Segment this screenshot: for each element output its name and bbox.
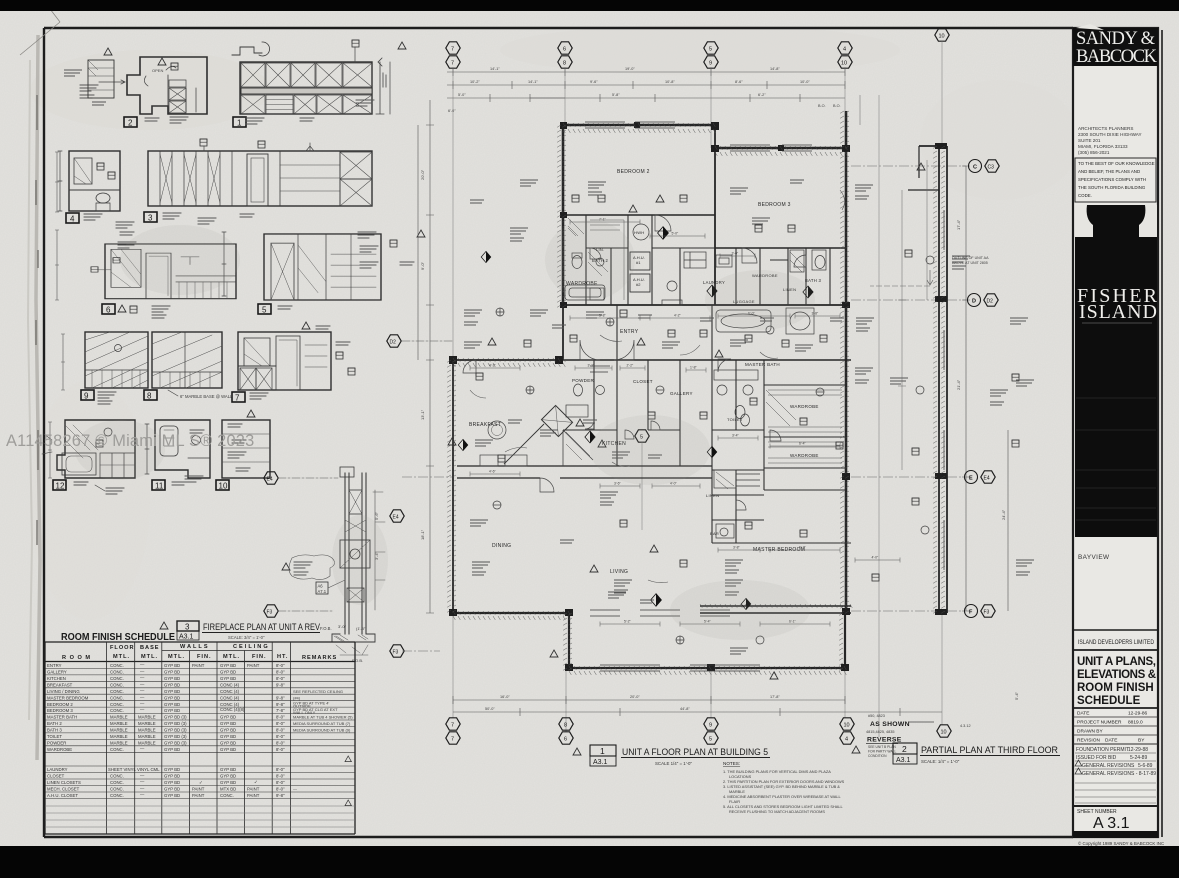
svg-text:—: — bbox=[140, 707, 145, 712]
top dimension chains bbox=[447, 68, 845, 102]
svg-text:20'-0": 20'-0" bbox=[630, 695, 640, 699]
east facade adjacent building bbox=[919, 146, 947, 613]
svg-text:5'-0": 5'-0" bbox=[458, 93, 466, 97]
bedroom2 north wall bbox=[563, 124, 715, 127]
svg-text:3: 3 bbox=[148, 214, 153, 223]
left vertical dimension chain bbox=[418, 100, 434, 613]
detail 11 bath plan bbox=[145, 420, 210, 491]
svg-text:4: 4 bbox=[70, 215, 75, 224]
svg-text:KITCHEN: KITCHEN bbox=[47, 676, 66, 681]
svg-text:A11458267 © Miami ML S® 2023: A11458267 © Miami ML S® 2023 bbox=[6, 432, 254, 450]
svg-text:PAINT: PAINT bbox=[247, 793, 260, 798]
svg-text:CLOSET: CLOSET bbox=[633, 379, 653, 384]
svg-text:16'-0": 16'-0" bbox=[500, 695, 510, 699]
svg-text:CONC (4): CONC (4) bbox=[220, 695, 240, 700]
svg-text:GALLERY: GALLERY bbox=[47, 670, 67, 675]
svg-text:D2: D2 bbox=[987, 299, 994, 305]
fireplace note cloud bbox=[282, 563, 290, 570]
detail 6 master bath elevation bbox=[91, 244, 236, 318]
svg-text:—: — bbox=[293, 787, 297, 792]
svg-text:BEDROOM 3: BEDROOM 3 bbox=[758, 202, 791, 208]
ceiling fin column bbox=[247, 663, 260, 798]
svg-text:WALLS: WALLS bbox=[180, 644, 210, 650]
A.H.U. boxes bbox=[630, 252, 650, 270]
svg-text:—: — bbox=[140, 779, 145, 784]
svg-text:10: 10 bbox=[844, 723, 850, 729]
right margin hexagon markers bbox=[635, 160, 999, 618]
svg-text:GYP BD (3): GYP BD (3) bbox=[164, 715, 187, 720]
wardrobe shelf lines bbox=[590, 220, 842, 463]
svg-text:BASE: BASE bbox=[140, 645, 160, 651]
svg-text:CONC.: CONC. bbox=[110, 689, 124, 694]
svg-text:GYP BD: GYP BD bbox=[164, 774, 180, 779]
svg-text:SCALE: 3/4" = 1'-0": SCALE: 3/4" = 1'-0" bbox=[228, 635, 265, 640]
svg-text:GYP BD (3): GYP BD (3) bbox=[164, 728, 187, 733]
svg-text:4: 4 bbox=[845, 737, 848, 743]
svg-text:DATE: DATE bbox=[1077, 711, 1089, 717]
svg-text:BEDROOM 3: BEDROOM 3 bbox=[47, 708, 73, 713]
svg-text:3: 3 bbox=[185, 623, 190, 632]
title block outer border bbox=[1073, 28, 1158, 837]
svg-text:8'-0": 8'-0" bbox=[276, 721, 285, 726]
svg-text:3'-4": 3'-4" bbox=[732, 434, 740, 438]
svg-text:LAUNDRY: LAUNDRY bbox=[47, 767, 68, 772]
urn shoulders bbox=[1075, 205, 1093, 237]
svg-text:GENERAL REVISIONS - 8-17-89: GENERAL REVISIONS - 8-17-89 bbox=[1082, 771, 1156, 777]
svg-text:CONDITION: CONDITION bbox=[868, 754, 887, 758]
chimney wall strip bbox=[345, 473, 366, 634]
svg-text:5-24-89: 5-24-89 bbox=[1130, 755, 1147, 761]
svg-text:14'-1": 14'-1" bbox=[490, 67, 500, 71]
svg-text:5: 5 bbox=[709, 47, 712, 53]
svg-text:GYP BD (3): GYP BD (3) bbox=[164, 721, 187, 726]
D2 hexagon margin marker bbox=[387, 335, 452, 347]
table grid bbox=[45, 642, 355, 834]
fireplace plan detail bbox=[264, 467, 404, 663]
west wall bedroom2 bbox=[562, 125, 565, 305]
marker F3 mid bbox=[390, 645, 404, 657]
sheet number box bbox=[1073, 805, 1158, 807]
svg-text:8'-0": 8'-0" bbox=[276, 676, 285, 681]
title block bottom black bar bbox=[1073, 831, 1158, 838]
svg-text:A6: A6 bbox=[318, 584, 324, 589]
svg-text:MARBLE: MARBLE bbox=[138, 721, 156, 726]
svg-text:10'-0": 10'-0" bbox=[800, 80, 810, 84]
svg-text:THE SOUTH FLORIDA BUILDING: THE SOUTH FLORIDA BUILDING bbox=[1078, 185, 1146, 190]
svg-text:GYP BD: GYP BD bbox=[164, 682, 180, 687]
marker E4 left bbox=[264, 472, 278, 484]
svg-text:FLOOR: FLOOR bbox=[110, 645, 135, 651]
bath3 tub/lav bbox=[790, 250, 804, 272]
detail 8 shower elevation bbox=[144, 332, 233, 401]
detail 1 kitchen elevation bbox=[232, 40, 406, 128]
svg-text:18'-1": 18'-1" bbox=[420, 529, 425, 540]
walls fin column bbox=[192, 663, 205, 798]
window sills on exterior walls bbox=[585, 122, 944, 671]
svg-text:5'-6": 5'-6" bbox=[374, 511, 379, 520]
reference dash-dot lines to right margin bbox=[402, 166, 966, 651]
svg-text:5'-0": 5'-0" bbox=[672, 232, 680, 236]
svg-text:GENERAL REVISIONS: GENERAL REVISIONS bbox=[1082, 763, 1135, 769]
svg-text:BATH 2: BATH 2 bbox=[47, 721, 62, 726]
svg-text:✓: ✓ bbox=[254, 780, 258, 785]
svg-text:5-6-89: 5-6-89 bbox=[1138, 763, 1153, 769]
bottom dimension chains of plan bbox=[453, 696, 942, 716]
svg-text:8: 8 bbox=[563, 61, 566, 67]
svg-text:F.O.B.: F.O.B. bbox=[352, 658, 363, 663]
svg-text:3'-8": 3'-8" bbox=[733, 546, 741, 550]
svg-text:5'-4": 5'-4" bbox=[1014, 691, 1019, 700]
svg-text:11: 11 bbox=[155, 482, 164, 491]
svg-text:12: 12 bbox=[56, 482, 65, 491]
powder fixtures bbox=[574, 384, 583, 396]
top grid bubbles bbox=[446, 29, 949, 68]
svg-text:MASTER BATH: MASTER BATH bbox=[745, 362, 780, 367]
svg-text:BATH 3: BATH 3 bbox=[805, 278, 822, 283]
detail 7 vanity elevation bbox=[232, 322, 355, 403]
svg-text:CEILING: CEILING bbox=[233, 644, 270, 650]
svg-text:REMARKS: REMARKS bbox=[302, 655, 337, 661]
svg-text:POWDER: POWDER bbox=[47, 741, 66, 746]
svg-text:20'-0": 20'-0" bbox=[420, 169, 425, 180]
svg-text:44'-8": 44'-8" bbox=[680, 707, 690, 711]
svg-text:D: D bbox=[972, 299, 976, 305]
svg-text:ENTRY: ENTRY bbox=[620, 329, 639, 335]
svg-text:—: — bbox=[140, 694, 145, 699]
linen/bar little walls bbox=[735, 470, 737, 543]
svg-text:CONC.: CONC. bbox=[110, 676, 124, 681]
svg-text:GYP BD: GYP BD bbox=[164, 780, 180, 785]
svg-text:B.O.: B.O. bbox=[833, 104, 841, 108]
svg-text:9'-8": 9'-8" bbox=[276, 702, 285, 707]
svg-text:SUITE 201: SUITE 201 bbox=[1078, 138, 1101, 143]
svg-text:HWH: HWH bbox=[634, 230, 644, 235]
svg-text:3'-0": 3'-0" bbox=[732, 252, 740, 256]
svg-text:6'-2": 6'-2" bbox=[758, 93, 766, 97]
faint lines inside black box bbox=[1076, 398, 1156, 520]
svg-text:REVISION: REVISION bbox=[1077, 738, 1100, 744]
bottom black band bbox=[0, 846, 1179, 878]
svg-text:C3: C3 bbox=[988, 165, 995, 171]
svg-text:CONC (4): CONC (4) bbox=[220, 682, 240, 687]
svg-text:GYP BD: GYP BD bbox=[164, 767, 180, 772]
svg-text:6: 6 bbox=[563, 47, 566, 53]
svg-text:GYP BD: GYP BD bbox=[220, 676, 236, 681]
svg-text:E4: E4 bbox=[984, 476, 990, 482]
svg-text:CONC.: CONC. bbox=[110, 702, 124, 707]
svg-text:5'-8": 5'-8" bbox=[612, 93, 620, 97]
spine bedroom2/3 bbox=[714, 125, 716, 305]
svg-text:© Copyright 1989 SANDY & BABC: © Copyright 1989 SANDY & BABCOCK INC bbox=[1078, 841, 1164, 846]
svg-text:5'-2": 5'-2" bbox=[624, 620, 632, 624]
svg-text:8'-0": 8'-0" bbox=[276, 734, 285, 739]
svg-text:7'-1": 7'-1" bbox=[599, 218, 607, 222]
svg-text:FOR PARTY WALL: FOR PARTY WALL bbox=[868, 750, 896, 754]
svg-text:UNIT A FLOOR PLAN AT BUILDING: UNIT A FLOOR PLAN AT BUILDING 5 bbox=[622, 747, 768, 757]
svg-text:SANDY &: SANDY & bbox=[1076, 29, 1156, 49]
svg-text:17'-8": 17'-8" bbox=[770, 695, 780, 699]
svg-text:10'-8": 10'-8" bbox=[665, 80, 675, 84]
marker F3 left bbox=[264, 605, 278, 617]
svg-text:C: C bbox=[973, 165, 977, 171]
detail 12 master bath plan bbox=[42, 420, 135, 494]
svg-text:MARBLE: MARBLE bbox=[138, 741, 156, 746]
svg-text:50'-0": 50'-0" bbox=[485, 707, 495, 711]
svg-text:MASTER BEDROOM: MASTER BEDROOM bbox=[47, 695, 89, 700]
svg-text:—: — bbox=[140, 746, 145, 751]
svg-text:4'-2": 4'-2" bbox=[489, 364, 497, 368]
hwh bbox=[633, 224, 649, 240]
detail 3 long cabinet elevation bbox=[144, 139, 372, 224]
left crease bbox=[36, 35, 40, 760]
svg-text:BAYVIEW: BAYVIEW bbox=[1078, 554, 1110, 561]
sandy & babcock black box bbox=[1073, 28, 1158, 66]
svg-text:ELEVATIONS &: ELEVATIONS & bbox=[1077, 669, 1156, 681]
svg-text:8'-0": 8'-0" bbox=[276, 774, 285, 779]
svg-text:4'-0": 4'-0" bbox=[872, 556, 880, 560]
svg-text:3'-1": 3'-1" bbox=[588, 364, 596, 368]
svg-text:GYP BD: GYP BD bbox=[220, 715, 236, 720]
svg-text:1'-8": 1'-8" bbox=[690, 366, 698, 370]
svg-text:GYP BD: GYP BD bbox=[164, 787, 180, 792]
svg-text:GALLERY: GALLERY bbox=[670, 391, 693, 396]
svg-text:4.3.12: 4.3.12 bbox=[960, 724, 971, 728]
svg-text:GYP BD: GYP BD bbox=[164, 670, 180, 675]
svg-text:10: 10 bbox=[941, 730, 947, 736]
svg-text:CODE.: CODE. bbox=[1078, 193, 1092, 198]
svg-text:8'-0": 8'-0" bbox=[276, 780, 285, 785]
leader curves details bbox=[470, 190, 845, 583]
svg-text:10: 10 bbox=[219, 482, 228, 491]
svg-text:GYP BD: GYP BD bbox=[220, 663, 236, 668]
svg-text:9'-8": 9'-8" bbox=[276, 695, 285, 700]
svg-text:E4: E4 bbox=[267, 477, 273, 483]
svg-text:TOILET: TOILET bbox=[47, 734, 62, 739]
svg-text:MARBLE: MARBLE bbox=[138, 728, 156, 733]
svg-text:CONC.: CONC. bbox=[110, 793, 124, 798]
svg-text:FOUNDATION PERMIT: FOUNDATION PERMIT bbox=[1076, 747, 1129, 753]
svg-text:7'-8": 7'-8" bbox=[276, 708, 285, 713]
svg-text:8'-0": 8'-0" bbox=[276, 715, 285, 720]
bottom grid bubbles bbox=[446, 718, 951, 744]
svg-text:7: 7 bbox=[451, 61, 454, 67]
svg-text:14'-8": 14'-8" bbox=[770, 67, 780, 71]
outline of unit above note bbox=[870, 256, 989, 286]
vents and misc circles bbox=[493, 256, 934, 644]
scan smudges bbox=[75, 220, 815, 640]
svg-text:—: — bbox=[140, 773, 145, 778]
svg-text:—: — bbox=[140, 688, 145, 693]
table headers bbox=[62, 644, 337, 661]
svg-text:9'-8": 9'-8" bbox=[276, 793, 285, 798]
svg-text:10: 10 bbox=[841, 61, 847, 67]
svg-text:AS SHOWN: AS SHOWN bbox=[870, 721, 910, 728]
svg-text:MARBLE: MARBLE bbox=[138, 734, 156, 739]
svg-text:8'-6": 8'-6" bbox=[735, 80, 743, 84]
tiny annotation scribbles bbox=[464, 310, 482, 316]
svg-text:6: 6 bbox=[106, 306, 111, 315]
top black band bbox=[0, 0, 1179, 11]
bedroom2 south wall bbox=[563, 214, 715, 216]
svg-text:2: 2 bbox=[902, 744, 907, 754]
svg-text:GYP BD: GYP BD bbox=[220, 780, 236, 785]
svg-text:9: 9 bbox=[709, 723, 712, 729]
svg-text:E: E bbox=[969, 476, 973, 482]
svg-text:GYP BD: GYP BD bbox=[220, 774, 236, 779]
svg-text:8'-0": 8'-0" bbox=[276, 767, 285, 772]
svg-text:MARBLE: MARBLE bbox=[110, 721, 128, 726]
svg-text:A7.1: A7.1 bbox=[318, 589, 327, 594]
svg-text:GYP BD: GYP BD bbox=[220, 728, 236, 733]
svg-text:GYP BD: GYP BD bbox=[164, 793, 180, 798]
svg-text:24'-4": 24'-4" bbox=[1001, 509, 1006, 520]
svg-text:UNIT A PLANS,: UNIT A PLANS, bbox=[1077, 656, 1156, 668]
svg-text:8'-0": 8'-0" bbox=[276, 787, 285, 792]
svg-text:SHEET VINYL: SHEET VINYL bbox=[108, 767, 136, 772]
detail 5 bath elevation bbox=[222, 230, 425, 315]
svg-text:7: 7 bbox=[451, 723, 454, 729]
svg-text:GYP BD: GYP BD bbox=[220, 747, 236, 752]
svg-text:GYP BD: GYP BD bbox=[164, 702, 180, 707]
svg-text:BEDROOM 2: BEDROOM 2 bbox=[617, 169, 650, 175]
svg-text:WARDROBE: WARDROBE bbox=[790, 404, 819, 409]
row lines bbox=[45, 668, 355, 798]
svg-text:PROJECT NUMBER: PROJECT NUMBER bbox=[1077, 720, 1122, 726]
svg-text:9: 9 bbox=[709, 61, 712, 67]
svg-text:CONC.: CONC. bbox=[220, 793, 234, 798]
svg-text:BATH 3: BATH 3 bbox=[47, 728, 62, 733]
master bedroom south wall bbox=[700, 606, 851, 613]
walls mtl column bbox=[164, 663, 187, 798]
party wall east bbox=[845, 111, 848, 613]
svg-text:BAR: BAR bbox=[710, 531, 719, 536]
svg-text:—: — bbox=[140, 701, 145, 706]
paper stains bbox=[30, 50, 270, 130]
svg-text:GYP BD: GYP BD bbox=[164, 689, 180, 694]
svg-text:MARBLE: MARBLE bbox=[138, 715, 156, 720]
svg-text:OUTLINE OF UNIT AA: OUTLINE OF UNIT AA bbox=[952, 256, 989, 260]
bath strip south wall bbox=[563, 304, 846, 306]
laundry tubs bbox=[716, 255, 732, 267]
svg-text:5'-8": 5'-8" bbox=[599, 314, 607, 318]
svg-text:CONC.: CONC. bbox=[110, 787, 124, 792]
master bath fixtures bbox=[717, 385, 727, 395]
svg-text:A3.1: A3.1 bbox=[593, 759, 608, 766]
toilet/wardrobe block right bbox=[735, 360, 737, 430]
svg-text:CONC.: CONC. bbox=[110, 670, 124, 675]
wall hatching ticks bbox=[447, 111, 945, 675]
svg-text:WARDROBE: WARDROBE bbox=[790, 453, 819, 458]
svg-text:AND BELIEF, THE PLANS AND: AND BELIEF, THE PLANS AND bbox=[1078, 169, 1140, 174]
svg-text:—: — bbox=[140, 675, 145, 680]
svg-text:ISLAND: ISLAND bbox=[1079, 301, 1157, 323]
svg-text:2'-2": 2'-2" bbox=[627, 364, 635, 368]
detail 4 bath elevation bbox=[58, 151, 136, 248]
svg-text:17'-4": 17'-4" bbox=[956, 219, 961, 230]
detail 2 kitchen plan bbox=[80, 57, 207, 128]
svg-text:MEDIA SURROUND AT TUB (9): MEDIA SURROUND AT TUB (9) bbox=[293, 728, 351, 733]
svg-text:BREAKFAST: BREAKFAST bbox=[47, 682, 73, 687]
svg-text:5: 5 bbox=[262, 306, 267, 315]
svg-text:PAINT: PAINT bbox=[192, 663, 205, 668]
svg-text:ABOVE AT UNIT 2805: ABOVE AT UNIT 2805 bbox=[952, 261, 988, 265]
svg-text:SCALE: 1/4" = 1'-0": SCALE: 1/4" = 1'-0" bbox=[921, 759, 960, 764]
black door diamonds bbox=[481, 251, 491, 262]
svg-text:A.H.U. CLOSET: A.H.U. CLOSET bbox=[47, 793, 78, 798]
svg-text:8'-0": 8'-0" bbox=[276, 663, 285, 668]
svg-text:CONC.: CONC. bbox=[110, 695, 124, 700]
svg-text:5: 5 bbox=[709, 737, 712, 743]
svg-text:A 3.1: A 3.1 bbox=[1093, 815, 1130, 832]
svg-text:HT.: HT. bbox=[277, 654, 288, 660]
svg-text:MASTER BATH: MASTER BATH bbox=[47, 715, 77, 720]
svg-text:CONC.: CONC. bbox=[110, 663, 124, 668]
svg-text:GYP BD: GYP BD bbox=[164, 747, 180, 752]
svg-text:GYP BD: GYP BD bbox=[220, 734, 236, 739]
svg-text:7: 7 bbox=[235, 394, 240, 403]
marker E4 mid bbox=[390, 510, 404, 522]
svg-text:MTL.: MTL. bbox=[223, 654, 240, 660]
svg-text:RECEIVE FLUSHING TO MATCH ADJA: RECEIVE FLUSHING TO MATCH ADJACENT ROOMS bbox=[729, 809, 825, 814]
svg-text:21'-4": 21'-4" bbox=[956, 379, 961, 390]
top-left wall section fragment bbox=[64, 48, 114, 105]
breakfast table bbox=[488, 421, 506, 439]
notes list bbox=[723, 761, 845, 814]
svg-text:GYP BD: GYP BD bbox=[220, 721, 236, 726]
bath fixtures bbox=[565, 224, 825, 536]
room rows column: names bbox=[47, 663, 89, 798]
svg-text:#2: #2 bbox=[636, 282, 641, 287]
svg-text:F.O.B.: F.O.B. bbox=[320, 626, 332, 631]
svg-text:GYP BD: GYP BD bbox=[164, 708, 180, 713]
svg-text:6'-4": 6'-4" bbox=[799, 442, 807, 446]
svg-text:4. MEDICINE ABSORBENT PLASTER: 4. MEDICINE ABSORBENT PLASTER OVER WIREB… bbox=[723, 794, 842, 799]
kitchen island diagonal bbox=[541, 405, 572, 436]
ceiling mtl column bbox=[220, 663, 245, 798]
svg-text:F3: F3 bbox=[984, 610, 990, 616]
svg-text:(1'-8"): (1'-8") bbox=[356, 626, 367, 631]
svg-text:DINING: DINING bbox=[492, 543, 511, 549]
svg-text:#1: #1 bbox=[636, 260, 641, 265]
svg-text:MARBLE: MARBLE bbox=[110, 715, 128, 720]
svg-text:ARCHITECTS PLANNERS: ARCHITECTS PLANNERS bbox=[1078, 126, 1133, 131]
bar sink bbox=[720, 528, 728, 536]
kitchen counter wall bbox=[457, 466, 712, 478]
svg-text:MTL.: MTL. bbox=[113, 654, 130, 660]
svg-text:3'-8": 3'-8" bbox=[812, 312, 820, 316]
svg-text:8'-0": 8'-0" bbox=[276, 670, 285, 675]
entry door arcs bbox=[463, 215, 806, 510]
svg-text:8'-0": 8'-0" bbox=[276, 741, 285, 746]
detail 10 closet plan bbox=[216, 410, 270, 491]
terrace west wall bbox=[452, 360, 454, 613]
svg-text:BY: BY bbox=[1138, 738, 1145, 744]
svg-text:7: 7 bbox=[451, 737, 454, 743]
svg-text:4'-2": 4'-2" bbox=[674, 314, 682, 318]
svg-text:LIVING: LIVING bbox=[610, 569, 628, 575]
floor mtl column bbox=[108, 663, 136, 798]
svg-text:CONC.: CONC. bbox=[110, 708, 124, 713]
svg-text:8: 8 bbox=[147, 392, 152, 401]
wall column blocks bbox=[449, 122, 947, 671]
svg-text:MECH. CLOSET: MECH. CLOSET bbox=[47, 787, 80, 792]
title block outer second line bbox=[1161, 30, 1163, 837]
svg-text:OPEN: OPEN bbox=[152, 68, 163, 73]
svg-text:D2: D2 bbox=[390, 340, 397, 346]
svg-text:E4: E4 bbox=[393, 515, 399, 521]
dims right of fireplace bbox=[373, 490, 385, 610]
svg-text:DATE: DATE bbox=[1105, 738, 1117, 744]
